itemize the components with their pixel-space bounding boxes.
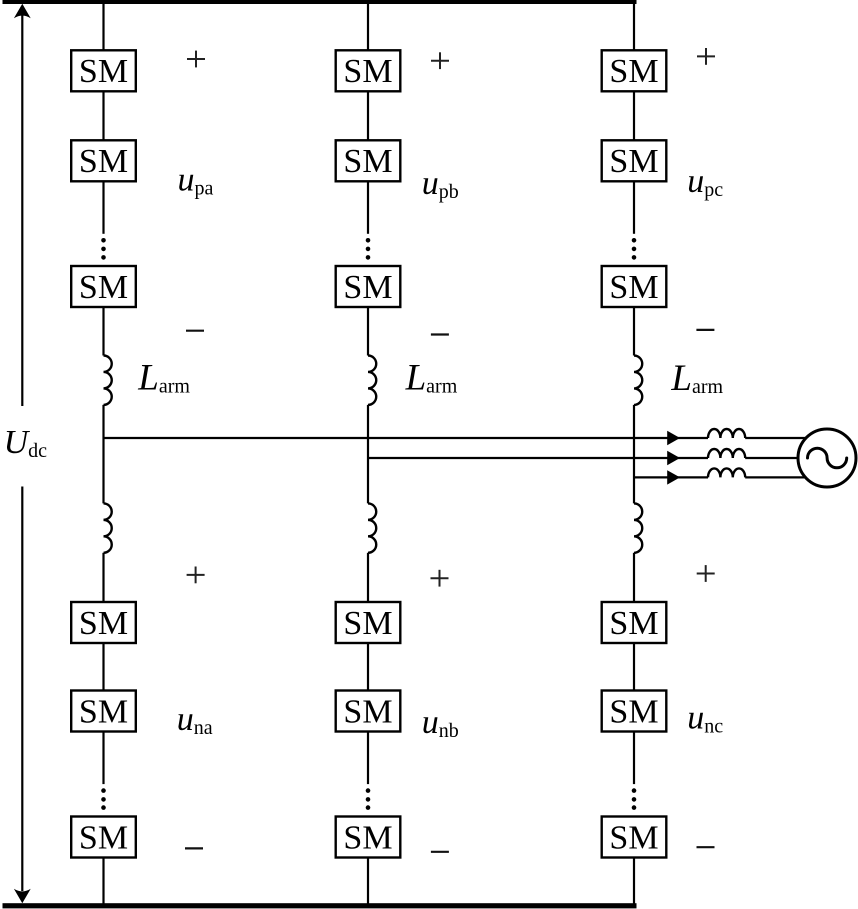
AC grid inductor phase c xyxy=(708,468,745,477)
wire phase b leg segment 3 xyxy=(367,181,369,234)
current arrow phase c xyxy=(667,470,680,484)
wire phase c leg segment 7 xyxy=(633,643,635,691)
svg-text:SM: SM xyxy=(343,693,392,730)
polarity minus phase b upper arm xyxy=(431,333,449,335)
inductor L_arm phase b upper arm xyxy=(368,356,376,405)
svg-text:unc: unc xyxy=(687,699,723,737)
wire phase b leg segment 1 xyxy=(367,3,369,50)
svg-text:Larm: Larm xyxy=(405,358,458,399)
ellipsis dots phase c upper arm xyxy=(632,238,637,260)
submodule SM phase c lower arm #3 xyxy=(602,817,667,858)
svg-text:SM: SM xyxy=(343,605,392,642)
wire phase c leg segment 2 xyxy=(633,91,635,140)
inductor L_arm phase a upper arm xyxy=(104,356,112,405)
svg-text:Larm: Larm xyxy=(670,358,723,399)
Udc measurement arrow line upper segment xyxy=(21,15,23,406)
submodule SM phase a upper arm #2 xyxy=(71,140,136,181)
svg-text:SM: SM xyxy=(343,53,392,90)
svg-text:SM: SM xyxy=(343,819,392,856)
wire phase a leg segment 2 xyxy=(102,91,104,140)
wire AC output line phase c xyxy=(634,476,812,478)
svg-text:SM: SM xyxy=(79,269,128,306)
wire phase a leg segment 5 xyxy=(102,405,104,504)
wire phase a leg segment 8 xyxy=(102,732,104,785)
inductor L_arm phase b lower arm xyxy=(368,503,376,552)
Udc measurement arrow line lower segment xyxy=(21,487,23,892)
polarity plus phase a lower arm xyxy=(187,567,205,584)
ellipsis dots phase c lower arm xyxy=(632,788,637,810)
svg-text:una: una xyxy=(177,701,213,739)
wire phase b leg segment 9 xyxy=(367,858,369,905)
polarity plus phase b lower arm xyxy=(431,570,449,587)
polarity plus phase c lower arm xyxy=(697,565,715,582)
current arrow phase a xyxy=(667,431,680,445)
submodule SM phase c lower arm #1 xyxy=(602,602,667,643)
submodule SM phase c upper arm #3 xyxy=(602,266,667,307)
ellipsis dots phase a lower arm xyxy=(101,788,106,810)
svg-text:SM: SM xyxy=(609,269,658,306)
wire phase a leg segment 3 xyxy=(102,181,104,234)
polarity minus phase a upper arm xyxy=(186,330,204,332)
polarity plus phase c upper arm xyxy=(697,48,715,65)
inductor L_arm phase c lower arm xyxy=(634,503,642,552)
Udc arrowhead up xyxy=(14,4,31,18)
wire phase b leg segment 6 xyxy=(367,553,369,602)
wire phase a leg segment 4 xyxy=(102,307,104,356)
svg-text:Udc: Udc xyxy=(4,424,48,462)
submodule SM phase c upper arm #1 xyxy=(602,50,667,91)
wire AC output line phase a xyxy=(104,437,813,439)
wire phase b leg segment 8 xyxy=(367,732,369,785)
submodule SM phase a upper arm #3 xyxy=(71,266,136,307)
submodule SM phase c lower arm #2 xyxy=(602,691,667,732)
current arrow phase b xyxy=(667,451,680,465)
svg-text:SM: SM xyxy=(609,605,658,642)
svg-text:SM: SM xyxy=(343,143,392,180)
AC grid inductor phase a xyxy=(708,429,745,438)
wire phase c leg segment 6 xyxy=(633,553,635,602)
ellipsis dots phase a upper arm xyxy=(101,238,106,260)
polarity minus phase b lower arm xyxy=(431,851,449,853)
submodule SM phase a lower arm #2 xyxy=(71,691,136,732)
submodule SM phase b upper arm #3 xyxy=(336,266,401,307)
svg-text:SM: SM xyxy=(343,269,392,306)
svg-text:SM: SM xyxy=(79,143,128,180)
polarity minus phase c upper arm xyxy=(696,329,714,331)
wire phase a leg segment 9 xyxy=(102,858,104,905)
wire phase b leg segment 5 xyxy=(367,405,369,504)
submodule SM phase b upper arm #1 xyxy=(336,50,401,91)
svg-text:upa: upa xyxy=(178,162,214,200)
submodule SM phase b lower arm #2 xyxy=(336,691,401,732)
wire phase c leg segment 5 xyxy=(633,405,635,504)
wire phase a leg segment 7 xyxy=(102,643,104,691)
wire phase c leg segment 8 xyxy=(633,732,635,785)
submodule SM phase a lower arm #1 xyxy=(71,602,136,643)
wire phase a leg segment 6 xyxy=(102,553,104,602)
submodule SM phase b lower arm #1 xyxy=(336,602,401,643)
Udc arrowhead down xyxy=(14,889,31,903)
wire phase b leg segment 4 xyxy=(367,307,369,356)
svg-text:SM: SM xyxy=(79,605,128,642)
svg-text:SM: SM xyxy=(79,53,128,90)
wire phase c leg segment 3 xyxy=(633,181,635,234)
submodule SM phase c upper arm #2 xyxy=(602,140,667,181)
AC source sine symbol xyxy=(808,448,847,468)
wire phase c leg segment 4 xyxy=(633,307,635,356)
svg-text:upc: upc xyxy=(687,163,723,201)
polarity minus phase a lower arm xyxy=(185,847,203,849)
svg-text:SM: SM xyxy=(609,693,658,730)
svg-text:SM: SM xyxy=(79,693,128,730)
inductor L_arm phase a lower arm xyxy=(104,503,112,552)
DC bus negative rail (bottom busbar) xyxy=(3,903,637,908)
wire phase c leg segment 9 xyxy=(633,858,635,905)
polarity minus phase c lower arm xyxy=(697,846,715,848)
wire phase b leg segment 7 xyxy=(367,643,369,691)
inductor L_arm phase c upper arm xyxy=(634,356,642,405)
svg-text:SM: SM xyxy=(609,53,658,90)
wire phase b leg segment 2 xyxy=(367,91,369,140)
ellipsis dots phase b upper arm xyxy=(366,238,371,260)
AC grid inductor phase b xyxy=(708,449,745,458)
svg-text:Larm: Larm xyxy=(137,358,190,399)
submodule SM phase b upper arm #2 xyxy=(336,140,401,181)
svg-text:unb: unb xyxy=(422,704,459,742)
polarity plus phase a upper arm xyxy=(187,51,205,68)
polarity plus phase b upper arm xyxy=(431,52,449,69)
submodule SM phase b lower arm #3 xyxy=(336,817,401,858)
DC bus positive rail (top busbar) xyxy=(3,0,637,4)
submodule SM phase a lower arm #3 xyxy=(71,817,136,858)
svg-text:SM: SM xyxy=(79,819,128,856)
svg-text:SM: SM xyxy=(609,819,658,856)
wire phase c leg segment 1 xyxy=(633,3,635,50)
submodule SM phase a upper arm #1 xyxy=(71,50,136,91)
svg-text:SM: SM xyxy=(609,143,658,180)
ellipsis dots phase b lower arm xyxy=(366,788,371,810)
wire AC output line phase b xyxy=(368,457,812,459)
wire phase a leg segment 1 xyxy=(102,3,104,50)
svg-text:upb: upb xyxy=(422,165,459,203)
AC source circle xyxy=(798,429,856,487)
